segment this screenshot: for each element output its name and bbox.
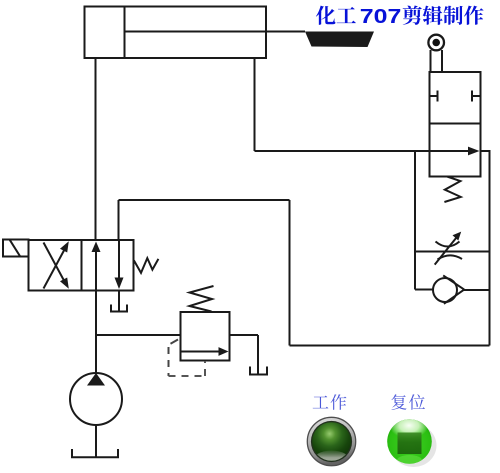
svg-text:707: 707: [360, 6, 402, 28]
